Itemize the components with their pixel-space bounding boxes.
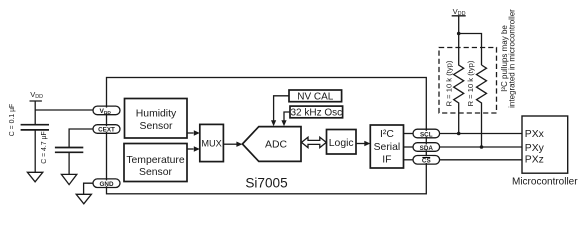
MUX block <box>200 124 224 161</box>
svg-text:ADC: ADC <box>265 140 287 151</box>
NV CAL block <box>289 90 342 102</box>
svg-text:PXz: PXz <box>525 155 544 166</box>
svg-text:C = 4.7 µF: C = 4.7 µF <box>41 131 48 164</box>
svg-text:PXy: PXy <box>525 143 545 154</box>
wire SDA to microcontroller PXy <box>440 146 522 148</box>
humidity sensor block <box>125 99 188 139</box>
svg-text:CS: CS <box>422 158 431 165</box>
svg-text:Humidity: Humidity <box>136 109 177 120</box>
svg-text:GND: GND <box>100 181 114 188</box>
capacitor C = 0.1 uF <box>21 125 49 130</box>
32 kHz Osc block <box>290 106 343 118</box>
dashed box (optional pull-ups) <box>439 48 497 114</box>
bus ADC to Logic (double arrow) <box>302 137 327 147</box>
wire NV CAL to ADC <box>274 96 289 121</box>
svg-text:Logic: Logic <box>329 138 354 149</box>
svg-text:SCL: SCL <box>420 131 433 138</box>
Si7005 block outline <box>107 78 427 194</box>
svg-text:Temperature: Temperature <box>126 155 185 166</box>
wire humidity sensor to MUX <box>187 132 194 134</box>
junction R1 to SCL <box>457 132 461 136</box>
wire SCL to microcontroller PXx <box>440 133 522 135</box>
wire CEXT pin to C2 <box>69 129 93 148</box>
temperature sensor block <box>124 144 187 182</box>
pin GND <box>93 179 120 188</box>
svg-text:Sensor: Sensor <box>139 167 172 178</box>
svg-text:Si7005: Si7005 <box>245 176 287 191</box>
svg-text:Serial: Serial <box>374 142 401 153</box>
wire C2 to ground <box>68 152 70 174</box>
svg-text:NV CAL: NV CAL <box>297 92 334 103</box>
wire MUX to ADC <box>223 143 236 145</box>
svg-text:MUX: MUX <box>201 138 221 148</box>
pin VDD <box>93 106 120 115</box>
ground (under GND pin) <box>76 194 91 204</box>
svg-text:Microcontroller: Microcontroller <box>512 177 578 188</box>
wire temperature sensor to MUX <box>187 148 194 150</box>
ADC block <box>242 127 301 162</box>
pin CEXT <box>93 125 120 134</box>
junction R2 to SDA <box>480 145 484 149</box>
svg-text:PXx: PXx <box>525 129 545 140</box>
svg-text:C = 0.1 µF: C = 0.1 µF <box>9 104 16 137</box>
power VDD (left supply) <box>30 101 42 125</box>
pin CS (active low) <box>413 156 440 165</box>
svg-text:32 kHz Osc: 32 kHz Osc <box>290 108 342 119</box>
capacitor C = 4.7 uF <box>55 148 83 153</box>
wire I2C IF to SCL pin <box>404 133 413 135</box>
wire VDD rail to VDD pin <box>35 109 93 111</box>
ground (under C1) <box>27 172 42 182</box>
ground (under C2) <box>61 174 76 184</box>
resistor R = 10 k (SCL pull-up) <box>454 34 464 134</box>
svg-text:SDA: SDA <box>420 145 434 152</box>
wire GND pin to ground <box>84 183 93 194</box>
pin SCL <box>413 129 440 138</box>
junction VDD split <box>457 32 461 36</box>
wire CS to microcontroller PXz <box>440 159 522 161</box>
power VDD (pull-up supply) <box>452 16 466 34</box>
logic block <box>327 130 357 155</box>
wire 32 kHz Osc to ADC <box>284 112 290 121</box>
wire VDD to R2 <box>459 34 482 66</box>
svg-text:Sensor: Sensor <box>140 121 173 132</box>
wire I2C IF to CS pin <box>404 159 413 161</box>
svg-text:integrated in microcontroller: integrated in microcontroller <box>508 9 517 108</box>
svg-text:R = 10 k (typ): R = 10 k (typ) <box>466 60 475 106</box>
svg-text:I²C: I²C <box>380 129 394 140</box>
svg-text:IF: IF <box>382 155 391 166</box>
wire Logic to I2C IF <box>356 143 365 145</box>
wire I2C IF to SDA pin <box>404 146 413 148</box>
pin SDA <box>413 143 440 152</box>
microcontroller block <box>522 116 568 173</box>
I2C serial interface block <box>370 125 403 168</box>
wire C1 to ground <box>34 130 36 172</box>
svg-text:CEXT: CEXT <box>98 127 115 134</box>
svg-text:R = 10 k (typ): R = 10 k (typ) <box>445 60 454 106</box>
resistor R = 10 k (SDA pull-up) <box>477 65 487 147</box>
